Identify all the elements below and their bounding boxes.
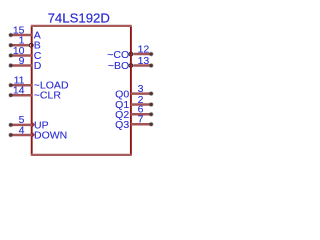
pin Q1 terminal dot xyxy=(149,102,154,107)
pin D terminal dot xyxy=(8,63,13,68)
pin DOWN clock edge triangle xyxy=(33,132,35,137)
pin B inversion bubble xyxy=(29,43,33,47)
pin BO wire (pin 13) xyxy=(133,64,151,67)
pin Q2 terminal dot xyxy=(149,112,154,117)
pin C terminal dot xyxy=(8,53,13,58)
svg-text:~BO: ~BO xyxy=(108,60,129,72)
pin UP clock edge triangle xyxy=(33,122,35,127)
pin CLR terminal dot xyxy=(8,93,13,98)
pin B wire (pin 1) xyxy=(11,44,30,47)
svg-text:74LS192D: 74LS192D xyxy=(48,10,110,25)
IC body U1: left border xyxy=(31,26,33,155)
svg-text:13: 13 xyxy=(138,55,150,67)
svg-text:D: D xyxy=(34,60,42,72)
svg-text:7: 7 xyxy=(138,114,144,126)
svg-text:~CLR: ~CLR xyxy=(34,90,62,102)
pin LOAD terminal dot xyxy=(8,83,13,88)
pin Q3 wire (pin 7) xyxy=(131,123,152,126)
pin CO wire (pin 12) xyxy=(133,53,151,56)
svg-text:4: 4 xyxy=(19,124,25,136)
pin Q0 wire (pin 3) xyxy=(131,92,152,95)
pin A wire (pin 15) xyxy=(11,34,32,37)
pin B terminal dot xyxy=(8,43,13,48)
svg-text:12: 12 xyxy=(138,43,150,55)
pin ~CO inversion bubble xyxy=(129,52,133,56)
pin CLR wire (pin 14) xyxy=(11,94,32,97)
svg-text:9: 9 xyxy=(19,55,25,67)
pin CO terminal dot xyxy=(149,52,154,57)
IC body U1: right border xyxy=(130,26,132,155)
pin UP terminal dot xyxy=(8,123,13,128)
pin DOWN terminal dot xyxy=(8,133,13,138)
pin BO terminal dot xyxy=(149,63,154,68)
pin Q1 wire (pin 2) xyxy=(131,103,152,106)
IC body U1: top border xyxy=(31,25,132,27)
svg-text:DOWN: DOWN xyxy=(34,129,67,141)
pin C wire (pin 10) xyxy=(11,54,32,57)
svg-text:Q3: Q3 xyxy=(115,119,129,131)
IC body U1: bottom border xyxy=(31,154,132,156)
pin A terminal dot xyxy=(8,33,13,38)
pin LOAD wire (pin 11) xyxy=(11,84,32,87)
svg-text:~CO: ~CO xyxy=(107,49,129,61)
pin UP wire (pin 5) xyxy=(11,124,32,127)
pin Q0 terminal dot xyxy=(149,91,154,96)
svg-text:14: 14 xyxy=(13,85,25,97)
pin ~BO inversion bubble xyxy=(129,64,133,68)
pin Q2 wire (pin 6) xyxy=(131,113,152,116)
pin D wire (pin 9) xyxy=(11,64,32,67)
pin Q3 terminal dot xyxy=(149,122,154,127)
pin DOWN wire (pin 4) xyxy=(11,134,32,137)
